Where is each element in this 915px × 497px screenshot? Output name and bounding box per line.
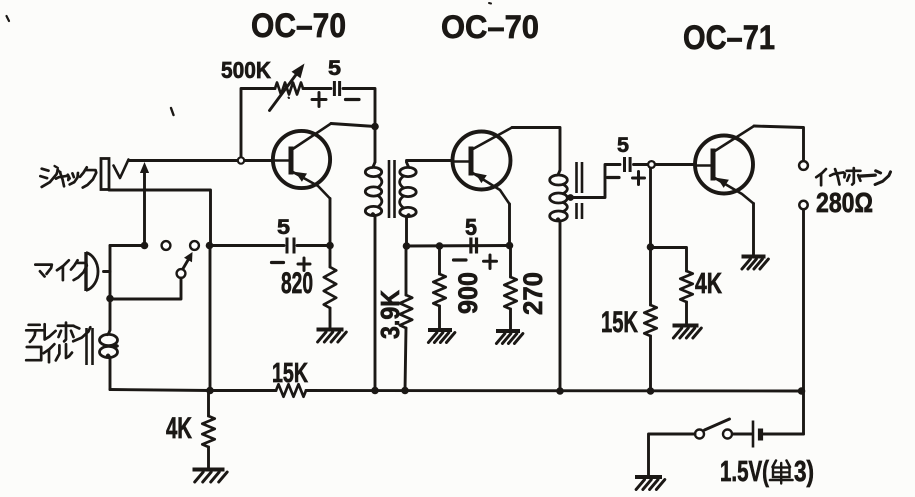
node Q1 emitter junction (dot)	[326, 242, 334, 250]
wire Q3 base node down	[649, 168, 652, 247]
telephone pickup coil L1 core bars	[85, 328, 88, 365]
node dot bus x375	[371, 387, 379, 395]
svg-text:280Ω: 280Ω	[816, 187, 873, 218]
ground below 900	[428, 328, 452, 332]
transformer T1 secondary winding	[407, 162, 411, 167]
svg-text:5: 5	[328, 57, 341, 80]
node dot at x210 on emitter wire	[206, 242, 214, 250]
resistor 15K (Q3 bias lower)	[649, 247, 652, 305]
label telephone-coil line2 (katakana)	[26, 347, 41, 360]
svg-text:820: 820	[281, 267, 313, 300]
wire jack tip to Q1 base	[129, 159, 273, 162]
power switch S2 lever	[705, 419, 730, 430]
svg-text:OC–71: OC–71	[683, 19, 775, 57]
earphone terminal lower (open circle)	[799, 201, 807, 209]
wire C4 to Q3 base	[634, 163, 695, 166]
svg-text:270: 270	[518, 272, 548, 315]
node small circle on Q1 base wire	[238, 157, 244, 163]
label mic (katakana)	[35, 265, 52, 274]
svg-text:5: 5	[277, 216, 290, 239]
ground below 820	[317, 328, 344, 332]
node dot Q3 bias junction	[647, 243, 655, 251]
label - polarity of C4	[608, 176, 620, 179]
battery B1 positive plate (long thin)	[752, 421, 755, 448]
wire T1 secondary top to Q2 base	[407, 161, 453, 163]
label kanji tan (AA cell) drawn	[773, 461, 777, 468]
wire C1 to collector node	[343, 89, 375, 127]
transformer T2 core lower	[575, 203, 578, 219]
jack J1 tip contact	[114, 160, 129, 179]
wire Q3 collector to earphone	[754, 126, 804, 161]
ground below Q3 emitter	[742, 255, 766, 259]
wire T1 secondary bottom to 3.9K node	[405, 218, 408, 246]
wire T2 tap to coupling cap	[571, 165, 621, 198]
label + polarity of C2	[298, 263, 310, 266]
label + polarity of C1	[312, 98, 326, 101]
svg-text:1.5V(: 1.5V(	[720, 456, 769, 488]
wire Q2 emitter down to junction	[508, 204, 511, 246]
resistor 820 (Q1 emitter)	[329, 246, 332, 268]
microphone MIC symbol	[84, 252, 87, 291]
resistor 4K (Q3 bias)	[680, 271, 692, 302]
label telephone-coil line1 (katakana)	[29, 323, 40, 326]
label jack (katakana)	[42, 169, 49, 171]
node T2 tap (dot)	[567, 194, 574, 201]
wire Q3 emitter to ground	[752, 204, 755, 256]
switch lever S1a with arrow to jack line	[143, 171, 146, 246]
ground below 4K (stage 3)	[673, 324, 699, 328]
node dot bus x803	[798, 387, 806, 395]
wire junction to 4K	[651, 248, 687, 272]
wire 500K to capacitor	[303, 87, 331, 90]
ground below 4K	[193, 468, 225, 472]
svg-text:4K: 4K	[695, 268, 722, 300]
wire switch to emitter cap	[210, 244, 285, 247]
capacitor C1 5uF (feedback)	[333, 81, 336, 96]
node dot bus x405	[401, 387, 409, 395]
power switch S2 contact right (open circle)	[723, 430, 732, 439]
ground below 270	[496, 329, 520, 333]
wire Q2 collector to T2	[512, 128, 560, 171]
transistor Q1 OC-70	[273, 131, 330, 188]
label earphone (katakana)	[816, 169, 826, 177]
transistor Q3 OC-71	[695, 136, 753, 194]
speck artifact top-left	[7, 16, 10, 21]
svg-text:15K: 15K	[272, 357, 308, 388]
svg-text:500K: 500K	[221, 57, 271, 83]
wire Q1 collector to junction	[331, 124, 375, 127]
switch contact lower (open circle)	[177, 269, 186, 278]
transistor Q2 OC-70	[453, 132, 511, 190]
jack J1 body	[101, 159, 109, 190]
label + polarity of C3	[484, 260, 497, 263]
resistor 900 (Q2 stabilizer)	[438, 246, 441, 274]
wire battery positive lead	[764, 433, 804, 436]
resistor 3.9K	[405, 246, 408, 295]
svg-text:15K: 15K	[601, 306, 638, 339]
label - polarity of C3	[454, 258, 467, 261]
capacitor C2 5uF (Q1 emitter)	[286, 238, 289, 254]
transformer T1 primary winding	[374, 127, 377, 163]
wire lower contact to mic/coil junction	[110, 278, 181, 299]
wire earphone lower terminal down	[802, 210, 805, 435]
wire T1 primary bottom to bus	[374, 217, 377, 391]
transformer T2 core upper	[575, 162, 578, 193]
wire mic vertical riser	[109, 246, 112, 300]
node dot Q2 emitter junction	[506, 242, 514, 250]
speck artifact below jack label	[171, 108, 174, 115]
node junction at mic bottom	[106, 295, 114, 303]
svg-text:5: 5	[617, 133, 629, 157]
svg-text:900: 900	[453, 272, 483, 314]
wire Q1 emitter down	[329, 199, 332, 246]
wire cap to 820 node	[297, 244, 330, 247]
node dot bus x560	[556, 387, 564, 395]
transformer T2 winding	[557, 170, 561, 175]
node T1 secondary bottom junction (dot)	[403, 242, 411, 250]
node small circle on Q3 base wire	[648, 161, 655, 168]
node switch common (dot)	[141, 242, 149, 250]
wire Q2 emitter bus	[407, 244, 510, 247]
wire jack sleeve down to switch bus	[109, 190, 211, 243]
capacitor C4 5uF (coupling)	[623, 157, 626, 172]
power switch S2 contact left (open circle)	[695, 430, 704, 439]
svg-text:4K: 4K	[166, 412, 192, 445]
arrow of 500K potentiometer	[270, 72, 299, 111]
switch lever S1b with arrow	[183, 258, 190, 270]
label - polarity of C1	[346, 98, 360, 101]
svg-text:OC–70: OC–70	[441, 9, 539, 45]
resistor 15K (in ground bus)	[276, 384, 306, 396]
node dot bus x210	[206, 387, 214, 395]
resistor 270 (Q2 emitter)	[509, 246, 512, 278]
transformer T1 core	[388, 160, 391, 218]
wire switch node down to ground bus	[209, 246, 212, 391]
ground below power switch	[635, 475, 662, 479]
wire Q1 base tap up to 500K	[241, 89, 275, 159]
svg-text:5: 5	[465, 214, 477, 240]
battery B1 negative plate (thick)	[758, 429, 763, 441]
wire battery to switch	[733, 433, 752, 436]
resistor 4K (input shunt)	[207, 391, 210, 417]
earphone terminal upper (open circle)	[799, 161, 808, 170]
node collector junction Q1 (dot)	[371, 123, 379, 131]
node dot bus x650	[647, 387, 655, 395]
resistor 500K (volume control)	[275, 83, 303, 95]
svg-text:3): 3)	[794, 456, 814, 488]
wire ground bus left segment	[110, 390, 276, 391]
telephone pickup coil L1 winding	[109, 299, 112, 330]
label - polarity of C2	[272, 261, 284, 264]
capacitor C3 5uF (Q2 emitter)	[469, 238, 472, 254]
switch contact (open circle)	[190, 241, 199, 250]
wire switch to ground	[649, 434, 696, 476]
svg-text:OC–70: OC–70	[251, 7, 346, 45]
wire ground bus right segment	[306, 389, 802, 392]
wire mic top to switch common	[110, 244, 145, 247]
wire T2 bottom to bus	[559, 222, 562, 391]
speck artifact near 500K	[288, 97, 291, 100]
node dot at 900 resistor top	[436, 242, 444, 250]
switch contact (open circle)	[162, 241, 171, 250]
label + polarity of C4	[633, 177, 645, 180]
